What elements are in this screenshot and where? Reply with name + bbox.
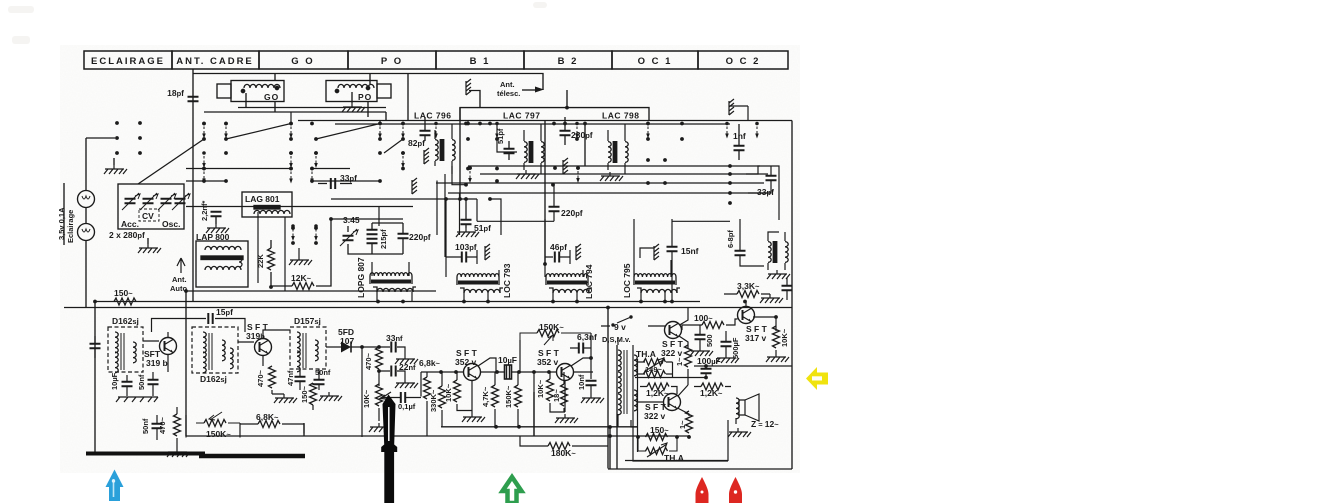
- switch pair mid: [289, 224, 318, 265]
- annotation red arrow 2: [729, 477, 742, 503]
- svg-text:500µF: 500µF: [731, 337, 740, 359]
- svg-text:317 v: 317 v: [745, 333, 767, 343]
- header box OC2: [698, 51, 788, 69]
- wire bottom right box: [608, 461, 792, 470]
- resistor 12K: [271, 219, 331, 290]
- wire lower bus: [186, 435, 688, 437]
- transistor SFT352 T3: [464, 364, 481, 381]
- annotation green arrow: [503, 477, 522, 503]
- svg-text:3,3K~: 3,3K~: [737, 281, 760, 291]
- wire LAC shelf: [193, 74, 649, 121]
- wire lac798 vertical: [584, 124, 586, 166]
- wire AGC bus: [95, 301, 700, 303]
- svg-text:LAC 798: LAC 798: [602, 111, 640, 121]
- wire band long f: [436, 182, 764, 184]
- thermistor THA bottom: [646, 448, 668, 455]
- wire band row b: [186, 180, 380, 182]
- svg-text:149~: 149~: [645, 365, 663, 374]
- header labels: [91, 56, 760, 67]
- resistor 150 lamp: [114, 288, 136, 305]
- svg-text:D,S,M.v.: D,S,M.v.: [602, 335, 631, 344]
- transformer LOPG 807: [356, 178, 417, 302]
- wire band long d: [468, 165, 760, 167]
- capacitor 220pf b2: [549, 207, 560, 211]
- resistor 1,2K b: [701, 383, 723, 390]
- svg-text:150K~: 150K~: [504, 385, 513, 408]
- svg-text:6,8k~: 6,8k~: [419, 358, 441, 368]
- capacitor 215pf: [367, 230, 378, 234]
- switch dots rows right of LAC798: [646, 158, 650, 162]
- vertical feeds LOC: [446, 199, 634, 266]
- lamp L1: [78, 191, 95, 208]
- resistor 149 tha: [644, 371, 666, 378]
- contact dots row4: [202, 167, 499, 171]
- svg-text:LAC 797: LAC 797: [503, 111, 541, 121]
- svg-text:330K~: 330K~: [429, 389, 438, 412]
- capacitor 2,2nf osc: [200, 200, 229, 233]
- svg-text:103pf: 103pf: [455, 242, 477, 252]
- transistor SFT322 T5: [665, 322, 682, 339]
- svg-text:10K~: 10K~: [780, 328, 789, 347]
- wire PO bottom drop: [367, 102, 369, 118]
- svg-text:LOC 795: LOC 795: [622, 263, 632, 298]
- svg-text:2,2nf*: 2,2nf*: [200, 200, 209, 221]
- header box B1: [436, 51, 524, 69]
- switch wiper arrows: [202, 122, 206, 139]
- core hatch 103: [485, 244, 490, 260]
- header box ANT. CADRE: [172, 51, 259, 69]
- svg-text:GO: GO: [264, 92, 279, 102]
- wire row2 stubs: [291, 112, 468, 124]
- svg-text:33nf: 33nf: [386, 333, 403, 343]
- varcap Osc: [161, 199, 172, 203]
- svg-text:O C 1: O C 1: [638, 56, 673, 67]
- svg-text:Acc.: Acc.: [121, 219, 139, 229]
- svg-text:150~: 150~: [114, 288, 133, 298]
- header box B2: [524, 51, 612, 69]
- svg-text:P O: P O: [381, 56, 403, 67]
- svg-text:22K: 22K: [256, 254, 265, 268]
- capacitor 0,1uf: [401, 392, 405, 403]
- svg-text:18~: 18~: [552, 389, 561, 402]
- wire antenna drop: [192, 69, 194, 302]
- capacitor 220pf osc: [398, 234, 409, 238]
- annotation yellow arrow: [806, 367, 828, 390]
- antenna shield hatch: [466, 79, 471, 95]
- svg-text:Ant.: Ant.: [500, 80, 515, 89]
- wire mid bottom bus: [304, 392, 610, 469]
- svg-text:3.45: 3.45: [343, 215, 360, 225]
- ground bus thick bar: [86, 452, 205, 456]
- svg-text:ECLAIRAGE: ECLAIRAGE: [91, 56, 165, 67]
- contact dots column 1: [115, 121, 119, 125]
- wire mixer feed vertical: [459, 108, 461, 199]
- svg-text:215pf: 215pf: [379, 229, 388, 249]
- resistor 22K vertical: [256, 240, 275, 287]
- annotation blue arrow: [106, 470, 124, 502]
- svg-text:B 2: B 2: [558, 56, 579, 67]
- core hatch 46: [576, 244, 581, 260]
- varcap Acc: [125, 199, 136, 203]
- header box ECLAIRAGE: [84, 51, 172, 69]
- variable capacitor block CV: [109, 139, 204, 253]
- svg-text:319b: 319b: [246, 331, 265, 341]
- core hatch mid: [563, 158, 568, 174]
- svg-text:10µF: 10µF: [498, 355, 517, 365]
- ground under PO: [351, 92, 353, 103]
- wire lac797 vertical: [544, 121, 546, 265]
- coil box LAP 800: [196, 232, 248, 287]
- svg-text:15nf: 15nf: [681, 246, 699, 256]
- svg-text:470~: 470~: [256, 369, 265, 387]
- wire band long e: [480, 173, 768, 175]
- wire left vertical x64: [63, 183, 65, 245]
- svg-text:D157sj: D157sj: [294, 316, 321, 326]
- svg-text:10nf: 10nf: [577, 374, 586, 390]
- svg-text:2 x 280pf: 2 x 280pf: [109, 230, 145, 240]
- transistor SFT352 T4: [557, 364, 574, 381]
- svg-text:180K~: 180K~: [551, 448, 576, 458]
- label CV: [139, 209, 159, 221]
- wire mixer verticals: [437, 166, 466, 257]
- svg-text:47nf: 47nf: [286, 370, 295, 386]
- contact dots row3: [224, 151, 405, 155]
- capacitor input: [90, 344, 101, 348]
- svg-text:O C 2: O C 2: [726, 56, 761, 67]
- transistor SFT317 T7: [738, 307, 755, 324]
- band switch matrix: [202, 112, 470, 168]
- svg-text:TH.A: TH.A: [636, 349, 656, 359]
- varcap 4: [175, 199, 186, 203]
- capacitor 33pf oc: [766, 176, 777, 180]
- transistor SFT319b T2: [255, 339, 272, 356]
- svg-text:33pf: 33pf: [340, 173, 357, 183]
- svg-text:G O: G O: [291, 56, 314, 67]
- contact dots row1: [202, 122, 470, 126]
- svg-text:15pf: 15pf: [216, 307, 233, 317]
- ground wide bar: [116, 397, 158, 402]
- svg-text:D162sj: D162sj: [112, 316, 139, 326]
- driver transformer: [618, 350, 621, 371]
- svg-text:50nf: 50nf: [141, 418, 150, 434]
- svg-text:10K~: 10K~: [536, 379, 545, 398]
- svg-text:LOC 793: LOC 793: [502, 263, 512, 298]
- MAIN WIRE GRID: [64, 69, 792, 469]
- ground 3,3K: [760, 294, 783, 303]
- svg-text:4,7K~: 4,7K~: [481, 386, 490, 407]
- coil box PO: [326, 81, 377, 102]
- svg-text:PO: PO: [358, 92, 372, 102]
- header box GO: [259, 51, 348, 69]
- coil box GO: [231, 81, 284, 102]
- transformer D162sj 2 dashed: [192, 327, 238, 373]
- svg-text:470~: 470~: [158, 416, 167, 434]
- wire x608 vertical: [607, 308, 609, 469]
- wire osc row g: [331, 199, 554, 221]
- svg-text:82pf: 82pf: [408, 138, 425, 148]
- switch contact grid left: [115, 121, 142, 155]
- wire lamp feed: [86, 138, 115, 308]
- svg-text:6-8pf: 6-8pf: [726, 230, 735, 248]
- transformer LAC798: [608, 141, 628, 163]
- switch arrows second rows: [202, 122, 587, 184]
- svg-text:LOPG 807: LOPG 807: [356, 257, 366, 298]
- svg-text:D162sj: D162sj: [200, 374, 227, 384]
- svg-text:ANT. CADRE: ANT. CADRE: [176, 56, 254, 67]
- wire GO top link: [238, 74, 386, 108]
- wire AVC rail: [186, 290, 436, 292]
- core hatch 795: [654, 244, 659, 260]
- wire GO bottom drop: [275, 102, 386, 121]
- wire left input vertical: [94, 302, 96, 454]
- transistor SFT322 T6: [664, 394, 681, 411]
- svg-text:Z = 12~: Z = 12~: [751, 419, 779, 429]
- wire supply bus: [64, 307, 792, 309]
- svg-text:220pf: 220pf: [561, 208, 583, 218]
- ground top right: [729, 99, 734, 115]
- svg-text:0,1µf: 0,1µf: [398, 402, 416, 411]
- second switch bank: [186, 166, 770, 257]
- svg-text:46pf: 46pf: [550, 242, 567, 252]
- wire osc row i: [331, 219, 730, 221]
- wire audio base line: [421, 371, 593, 373]
- transformer LAC796: [435, 139, 455, 161]
- paper scan noise: [60, 45, 800, 473]
- transformer LAC797: [524, 141, 544, 163]
- capacitor right edge: [782, 286, 793, 290]
- svg-text:100µF: 100µF: [697, 356, 721, 366]
- svg-text:3,5v 0,1A: 3,5v 0,1A: [57, 207, 66, 240]
- capacitor 33pf osc: [318, 173, 357, 189]
- oscillator trimmer 3.45: [340, 215, 431, 254]
- svg-text:10µF: 10µF: [110, 372, 119, 390]
- svg-text:10K~: 10K~: [362, 389, 371, 408]
- wire x186 vertical: [185, 291, 187, 436]
- svg-text:352 v: 352 v: [537, 357, 559, 367]
- svg-text:51pf: 51pf: [474, 223, 491, 233]
- ground under CV: [147, 238, 149, 244]
- wiper link diagonal 1: [226, 124, 291, 140]
- wire audio bus: [441, 426, 638, 428]
- wire diagonal to switch: [138, 139, 204, 184]
- annotation black pen: [381, 395, 397, 503]
- annotation red arrow 1: [696, 477, 709, 503]
- svg-text:Eclairage: Eclairage: [66, 210, 75, 243]
- wire x617 vertical: [616, 345, 618, 469]
- svg-text:1,2K~: 1,2K~: [700, 388, 723, 398]
- wiper link diagonal 2: [316, 124, 380, 140]
- svg-text:CV: CV: [142, 211, 154, 221]
- svg-text:9 v: 9 v: [614, 322, 626, 332]
- wire band row a: [186, 168, 350, 170]
- wires detector joins: [186, 415, 304, 438]
- wire right edge vertical: [791, 121, 793, 470]
- junction dots buses: [93, 197, 747, 309]
- svg-text:LAG 801: LAG 801: [245, 194, 280, 204]
- antenna auto arrow: [170, 258, 187, 293]
- header box PO: [348, 51, 436, 69]
- svg-text:230pf: 230pf: [571, 130, 593, 140]
- output box outline: [633, 345, 728, 461]
- transformer OC out: [768, 241, 788, 263]
- svg-text:50nf: 50nf: [315, 368, 331, 377]
- contact dots row2: [202, 137, 470, 141]
- wire top bus under boxes: [204, 111, 386, 113]
- svg-text:18pf: 18pf: [167, 88, 184, 98]
- resistor 1,2K a: [647, 383, 669, 390]
- ground vol: [369, 423, 392, 432]
- svg-text:500: 500: [705, 334, 714, 347]
- ground OC trafo: [767, 270, 790, 279]
- svg-text:LAC 796: LAC 796: [414, 111, 452, 121]
- svg-text:Auto: Auto: [170, 284, 187, 293]
- svg-text:150K~: 150K~: [206, 429, 231, 439]
- svg-text:322 v: 322 v: [661, 348, 683, 358]
- svg-text:220pf: 220pf: [409, 232, 431, 242]
- svg-text:50nf: 50nf: [137, 374, 146, 390]
- contact dots right column: [728, 164, 732, 168]
- left lamp chain: [78, 138, 116, 308]
- wire base drop x534: [533, 372, 535, 436]
- wire out bus: [635, 366, 792, 378]
- core hatch lopg: [412, 178, 417, 194]
- potentiometer 150K: [204, 420, 226, 427]
- switch arrows IF row: [434, 122, 438, 139]
- contact dots row5: [202, 179, 499, 183]
- svg-text:322 v: 322 v: [644, 411, 666, 421]
- capacitor 230pf: [560, 131, 571, 135]
- svg-text:470~: 470~: [364, 352, 373, 370]
- lamp L2: [78, 224, 95, 241]
- svg-text:Ant.: Ant.: [172, 275, 187, 284]
- ground T3: [462, 413, 485, 422]
- transistor SFT319b T1: [160, 338, 177, 355]
- svg-text:1~: 1~: [675, 357, 684, 366]
- svg-text:B 1: B 1: [470, 56, 491, 67]
- svg-text:352 v: 352 v: [455, 357, 477, 367]
- wire band long c: [448, 192, 770, 194]
- coil box LAG 801: [242, 192, 292, 291]
- wire detector vertical: [361, 347, 363, 437]
- svg-text:319 b: 319 b: [146, 358, 168, 368]
- wire osc row h: [186, 207, 413, 227]
- svg-text:Osc.: Osc.: [162, 219, 180, 229]
- varcap CV2: [143, 199, 154, 203]
- header box OC1: [612, 51, 698, 69]
- wiper link diagonal 3: [384, 139, 403, 153]
- contact dots column 2: [138, 121, 142, 125]
- ghost smudges: [8, 2, 547, 44]
- svg-text:télesc.: télesc.: [497, 89, 520, 98]
- wire main top bus: [298, 120, 792, 122]
- ground under dots: [104, 158, 127, 174]
- capacitor 82pf: [420, 131, 431, 135]
- svg-text:10K~: 10K~: [444, 383, 453, 402]
- svg-text:150~: 150~: [300, 385, 309, 403]
- ground LAC798: [600, 172, 623, 181]
- switch 9v: [601, 317, 631, 326]
- speaker: [739, 400, 745, 415]
- capacitor 51pf mix: [461, 220, 472, 224]
- core hatch LAC796: [424, 148, 429, 164]
- wire second bus: [335, 123, 730, 125]
- svg-text:6,3nf: 6,3nf: [577, 332, 597, 342]
- ground LAC797: [516, 170, 539, 179]
- capacitor 18pf: [188, 97, 199, 101]
